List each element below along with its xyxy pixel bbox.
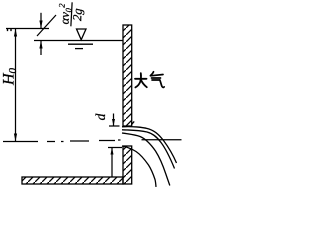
water surface nabla mark [77, 29, 87, 40]
velocity head up arrow [40, 41, 42, 56]
jet curve 4 (bottom) [122, 146, 156, 187]
surface underline 2 [75, 48, 83, 50]
arrowhead H0 top [14, 29, 17, 37]
velocity head down arrow [40, 13, 42, 29]
dimension line H0 [15, 29, 17, 142]
surface underline 1 [68, 43, 93, 45]
tank wall upper piece [123, 25, 132, 126]
d top tick [109, 125, 120, 127]
energy grade line [6, 28, 49, 30]
jet curve 3 [122, 133, 170, 186]
centerline dash-dot [47, 140, 121, 142]
label qi (atmosphere) char 气 [151, 72, 165, 88]
centerline solid left [3, 141, 38, 143]
fraction bar [71, 2, 72, 26]
datum ticks [8, 29, 12, 32]
stray hatch tick at wall edge [131, 121, 134, 124]
d bottom arrow [111, 148, 113, 178]
free surface line [34, 40, 123, 42]
arrowhead H0 bottom [14, 134, 17, 142]
svg-text:H0: H0 [1, 67, 20, 86]
centerline right of wall [142, 139, 182, 141]
label da (atmosphere) char 大 [135, 73, 147, 87]
jet curve 1 (top) [122, 127, 177, 163]
jet curve 2 [122, 130, 175, 169]
d bottom tick [108, 147, 122, 149]
tank wall lower piece [123, 146, 132, 184]
svg-text:d: d [93, 113, 108, 120]
floor slab [22, 177, 123, 184]
d top arrow [113, 114, 115, 127]
label alpha v0^2 / 2g (rotated fraction) [56, 2, 86, 27]
svg-text:2g: 2g [70, 8, 85, 21]
leader line [37, 15, 56, 36]
